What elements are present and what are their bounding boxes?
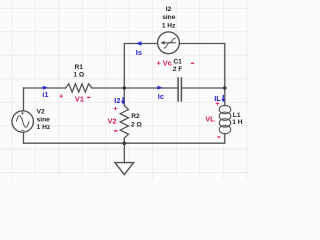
voltage source V2 circle xyxy=(12,111,33,132)
wire: R2 to bottom wire xyxy=(123,138,125,143)
svg-text:sine: sine xyxy=(37,117,51,124)
svg-text:1 H: 1 H xyxy=(232,119,242,126)
wire: capacitor to right rail xyxy=(182,87,225,89)
svg-text:2 Ω: 2 Ω xyxy=(131,121,142,128)
node G junction dot (bottom) xyxy=(123,141,127,145)
svg-text:1 Hz: 1 Hz xyxy=(162,22,176,29)
svg-text:R1: R1 xyxy=(74,64,83,71)
svg-text:V2: V2 xyxy=(37,109,45,116)
resistor R1 xyxy=(66,84,93,92)
svg-text:1 Ω: 1 Ω xyxy=(73,72,84,79)
svg-text:sine: sine xyxy=(162,14,176,21)
wire: top horizontal, left node to R1 xyxy=(24,87,66,89)
svg-text:Vc: Vc xyxy=(163,58,172,67)
svg-text:+: + xyxy=(157,58,162,67)
svg-text:Ic: Ic xyxy=(158,92,164,101)
wire: left rail top (source top to top wire) xyxy=(23,88,25,111)
V2 plus mark xyxy=(21,112,24,115)
current source I2 circle xyxy=(158,32,180,54)
wire: R1 to capacitor (through node A) xyxy=(92,87,177,89)
svg-text:i1: i1 xyxy=(42,90,48,99)
svg-text:C1: C1 xyxy=(173,58,182,65)
wire: left rail bottom (source bottom to bottom wire) xyxy=(23,132,25,143)
svg-text:I2: I2 xyxy=(166,6,172,13)
background grid xyxy=(0,0,250,179)
V2 sine symbol xyxy=(16,116,29,128)
I2 sine symbol xyxy=(164,38,176,48)
svg-text:R2: R2 xyxy=(131,113,140,120)
ground xyxy=(115,163,134,175)
arrow I2 down xyxy=(122,97,124,101)
svg-text:VL: VL xyxy=(205,114,215,123)
arrow i1 xyxy=(43,86,48,90)
arrow IL down xyxy=(222,95,224,99)
svg-text:2 F: 2 F xyxy=(173,66,183,73)
V2 minus mark xyxy=(21,129,24,131)
svg-text:Is: Is xyxy=(136,48,142,57)
wire: node A down to R2 xyxy=(123,88,125,106)
arrow Ic xyxy=(157,86,162,90)
wire: inductor bottom to bottom wire xyxy=(224,133,226,143)
inductor L1 xyxy=(219,105,231,134)
wire: node A up to I2 branch corner and to I2 source xyxy=(124,44,157,89)
svg-text:V1: V1 xyxy=(75,95,84,104)
svg-text:+: + xyxy=(215,99,220,108)
capacitor C1 plates xyxy=(178,78,181,101)
I2 arrow symbol xyxy=(164,42,176,44)
node A junction dot xyxy=(123,86,127,90)
svg-text:+: + xyxy=(113,104,118,113)
svg-text:1 Hz: 1 Hz xyxy=(37,124,51,131)
node B junction dot (right rail) xyxy=(223,86,227,90)
resistor R2 xyxy=(120,106,128,139)
wire: bottom horizontal xyxy=(24,142,225,144)
wire: ground stem xyxy=(123,143,125,162)
svg-text:V2: V2 xyxy=(108,116,117,125)
wire: I2 source right side to top-right corner and down xyxy=(179,44,224,89)
arrow Is xyxy=(136,41,142,45)
wire: right rail junction down to inductor xyxy=(224,88,226,106)
svg-text:+: + xyxy=(59,92,64,101)
